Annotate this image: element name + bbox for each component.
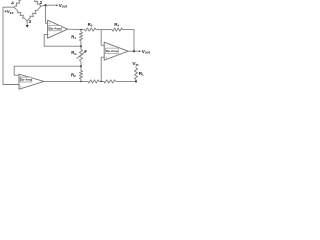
- svg-text:R2: R2: [71, 72, 76, 78]
- svg-text:RL: RL: [139, 71, 144, 77]
- svg-text:+: +: [20, 85, 22, 89]
- svg-text:Vout: Vout: [142, 49, 151, 55]
- svg-text:R1: R1: [71, 34, 76, 40]
- svg-text:Vin: Vin: [132, 61, 138, 67]
- svg-text:Op-Amp: Op-Amp: [106, 49, 118, 53]
- svg-text:Vout: Vout: [59, 3, 68, 9]
- svg-text:RG: RG: [71, 50, 77, 56]
- svg-text:+: +: [49, 22, 51, 26]
- svg-text:+VEX: +VEX: [4, 9, 13, 15]
- svg-text:−: −: [49, 33, 51, 37]
- svg-text:Op-Amp: Op-Amp: [49, 26, 61, 30]
- svg-text:+: +: [105, 56, 107, 60]
- svg-text:−: −: [105, 44, 107, 48]
- svg-text:R3: R3: [88, 22, 93, 28]
- svg-text:R4: R4: [114, 22, 119, 28]
- svg-text:−: −: [20, 75, 22, 79]
